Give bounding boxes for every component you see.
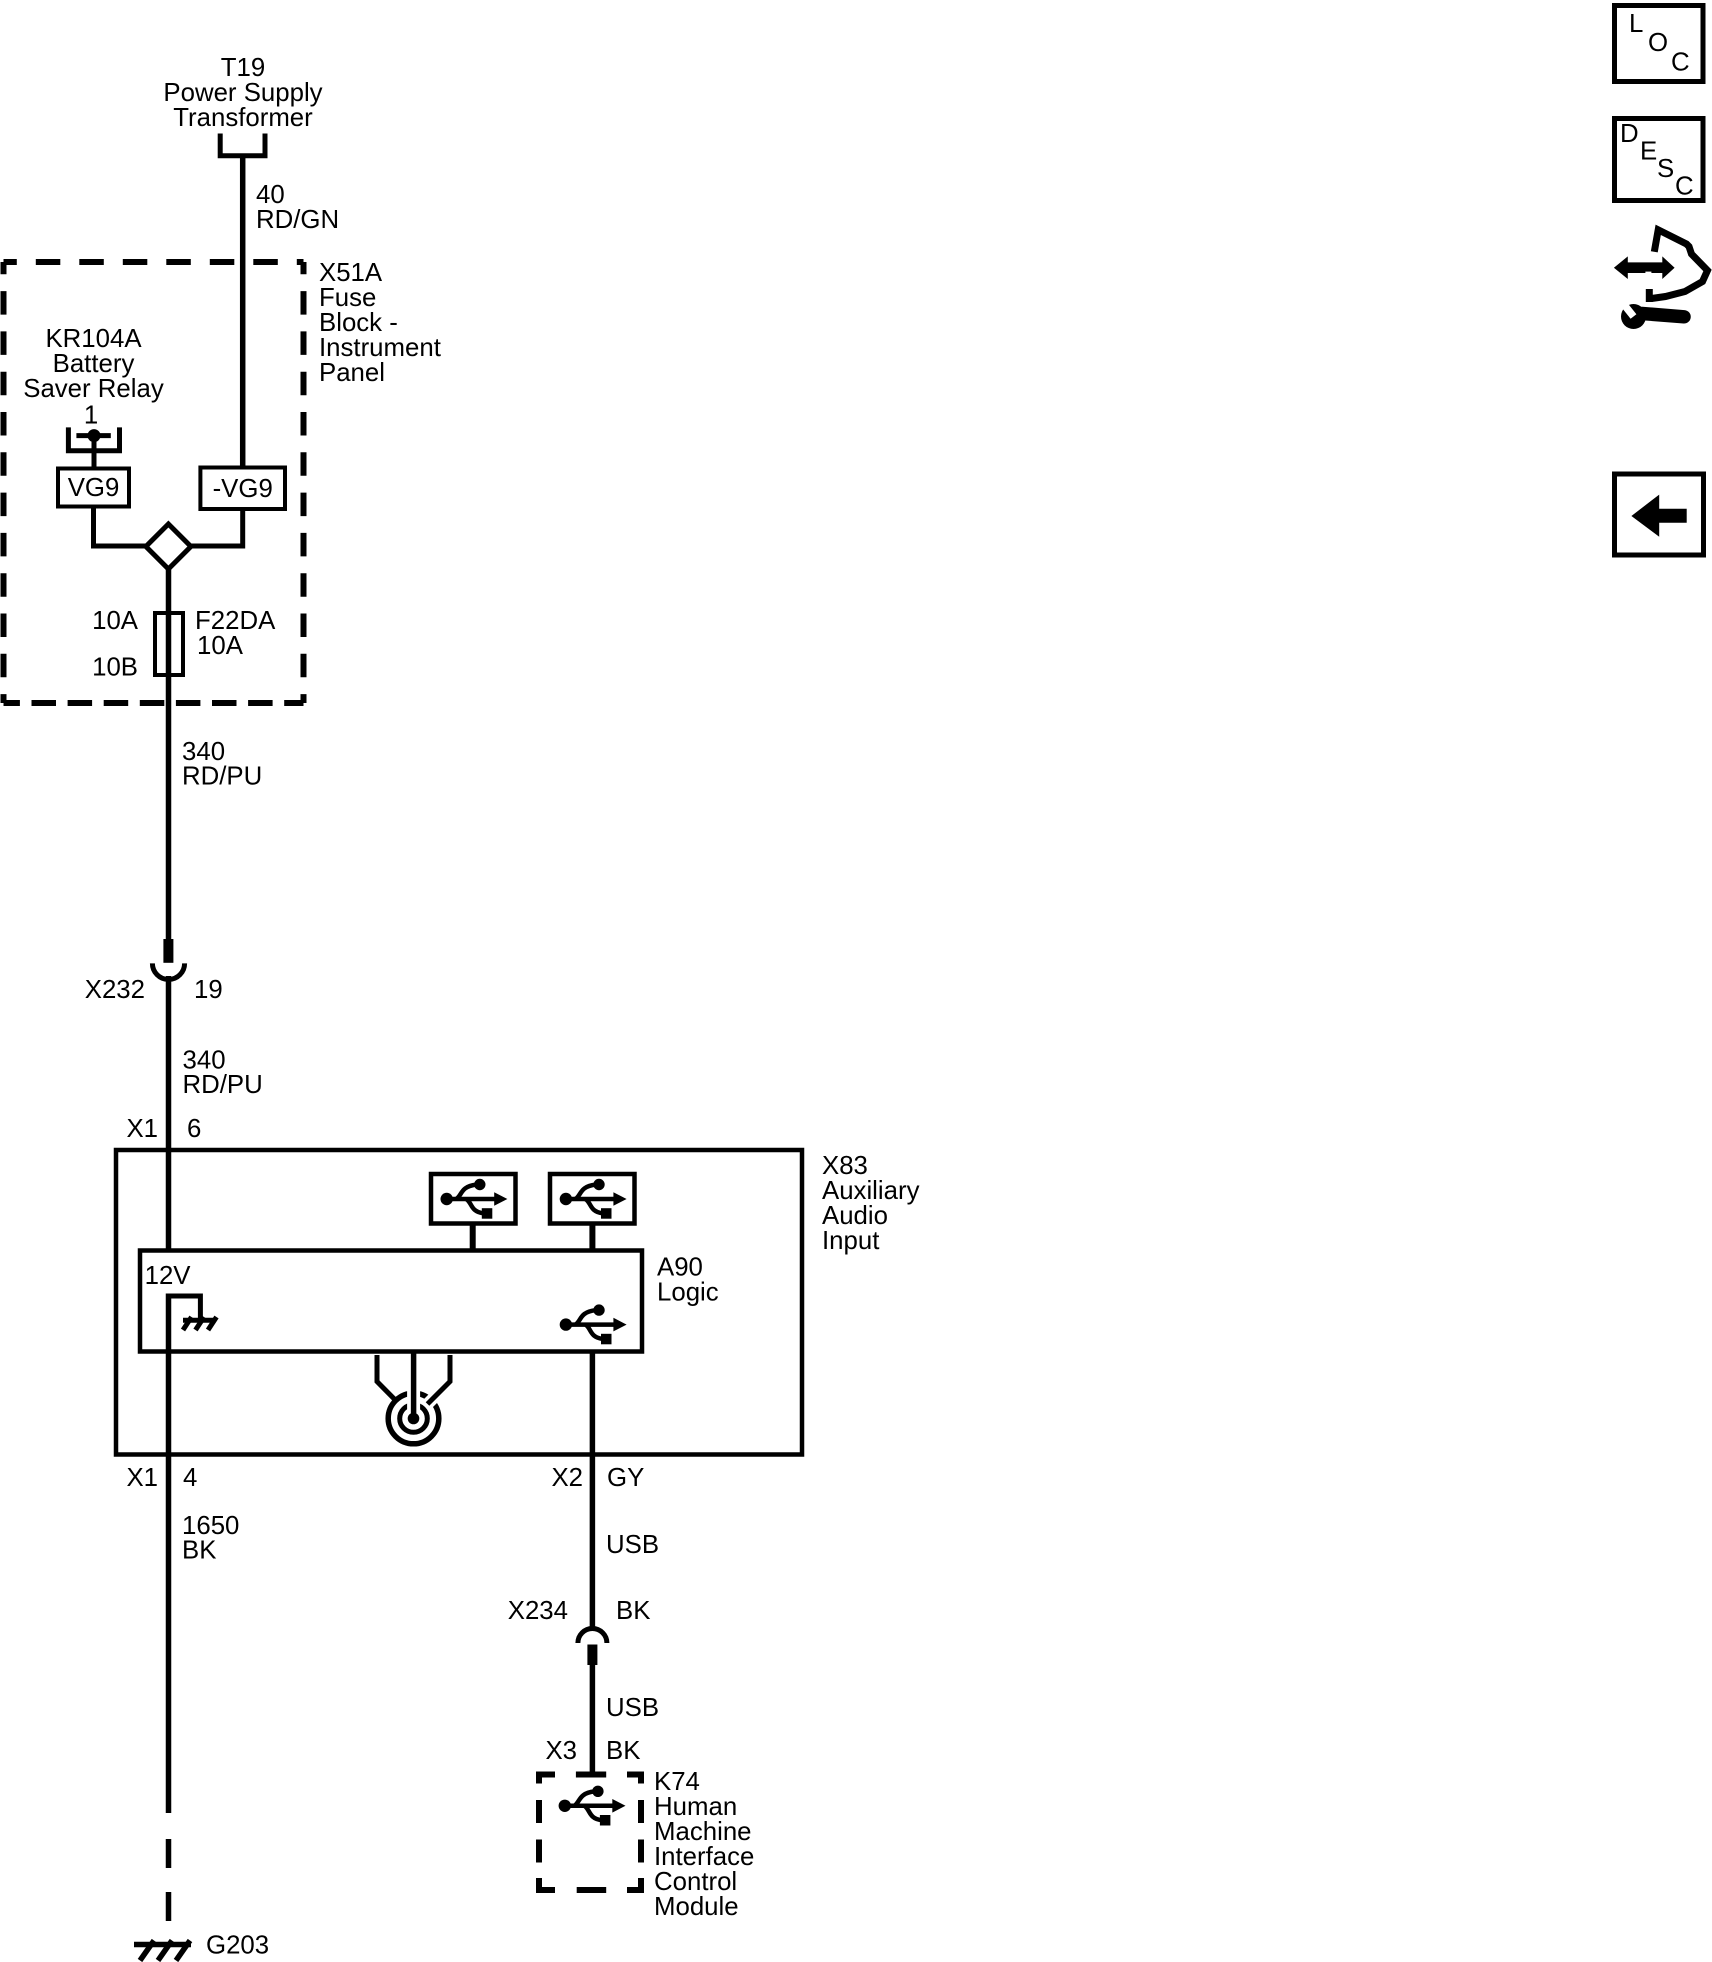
- fuse F22DA: [155, 613, 183, 675]
- module A90 logic box: [140, 1251, 642, 1352]
- svg-text:S: S: [1657, 155, 1674, 183]
- svg-text:4: 4: [183, 1464, 197, 1492]
- relay KR104A pin symbol: [68, 427, 119, 468]
- usb port box 2: [550, 1174, 635, 1224]
- ground G203: [134, 1941, 191, 1961]
- audio jack symbol: [377, 1354, 450, 1444]
- wire 40 RD/GN: [240, 156, 246, 468]
- svg-text:Instrument: Instrument: [319, 334, 441, 362]
- label X1 6: [126, 1115, 201, 1143]
- svg-text:X3: X3: [545, 1737, 577, 1765]
- wire splice through fuse to block edge: [166, 566, 172, 939]
- svg-text:Transformer: Transformer: [173, 104, 313, 132]
- svg-text:USB: USB: [606, 1694, 659, 1722]
- label KR104A Battery Saver Relay: [23, 325, 164, 403]
- svg-text:RD/PU: RD/PU: [183, 1071, 263, 1099]
- svg-text:RD/PU: RD/PU: [182, 763, 262, 791]
- label X232 19: [85, 976, 223, 1004]
- label X51A Fuse Block - Instrument Panel: [319, 259, 441, 387]
- svg-text:GY: GY: [607, 1464, 644, 1492]
- usb icon K74: [559, 1786, 626, 1826]
- wire 1650 BK: [166, 1294, 172, 1814]
- label 1650 BK: [182, 1512, 239, 1565]
- svg-text:Power Supply: Power Supply: [163, 79, 322, 107]
- svg-text:RD/GN: RD/GN: [256, 206, 339, 234]
- connector X232: [152, 939, 184, 980]
- wire usb port 1 stem: [470, 1225, 476, 1252]
- svg-text:1: 1: [84, 402, 98, 430]
- svg-text:Audio: Audio: [822, 1202, 888, 1230]
- svg-text:Module: Module: [654, 1893, 739, 1921]
- svg-text:VG9: VG9: [68, 474, 120, 502]
- svg-text:O: O: [1648, 29, 1668, 57]
- svg-text:L: L: [1629, 10, 1643, 38]
- label X1 4: [126, 1464, 197, 1492]
- svg-text:K74: K74: [654, 1768, 700, 1796]
- svg-text:12V: 12V: [145, 1262, 192, 1290]
- svg-text:40: 40: [256, 181, 285, 209]
- svg-text:X83: X83: [822, 1152, 868, 1180]
- label X3 BK: [545, 1737, 640, 1765]
- svg-text:USB: USB: [606, 1531, 659, 1559]
- svg-text:X234: X234: [508, 1597, 568, 1625]
- svg-text:-VG9: -VG9: [213, 475, 273, 503]
- svg-text:X2: X2: [551, 1464, 583, 1492]
- module K74 dashed box: [539, 1775, 641, 1891]
- usb port box 1: [431, 1174, 516, 1224]
- button back: [1615, 474, 1704, 555]
- svg-text:T19: T19: [221, 54, 265, 82]
- wire 340 RD/PU to X83: [166, 976, 172, 1252]
- wire USB BK: [590, 1665, 596, 1772]
- svg-text:A90: A90: [657, 1254, 703, 1282]
- button DESC: [1615, 119, 1704, 201]
- wire -VG9 to splice: [188, 509, 243, 546]
- wire usb port 2 stem: [589, 1225, 595, 1252]
- svg-text:Logic: Logic: [657, 1279, 719, 1307]
- svg-text:Control: Control: [654, 1868, 737, 1896]
- splice diamond: [146, 524, 191, 569]
- svg-text:BK: BK: [182, 1537, 216, 1565]
- icon diagnostic symptoms: [1614, 230, 1708, 329]
- label X2 GY: [551, 1464, 644, 1492]
- label X234 BK: [508, 1597, 651, 1625]
- label wire 340 RD/PU lower: [183, 1047, 263, 1100]
- chassis ground A90 internal: [183, 1317, 217, 1330]
- svg-text:C: C: [1675, 173, 1694, 201]
- label F22DA 10A: [195, 607, 276, 660]
- wire VG9 to splice: [94, 507, 151, 547]
- label X83 Auxiliary Audio Input: [822, 1152, 920, 1255]
- svg-text:Fuse: Fuse: [319, 284, 376, 312]
- svg-text:19: 19: [194, 976, 223, 1004]
- svg-text:10A: 10A: [197, 632, 244, 660]
- usb interface icon A90: [560, 1304, 627, 1344]
- label A90 Logic: [657, 1254, 719, 1307]
- label K74 Human Machine Interface Control Module: [654, 1768, 754, 1921]
- svg-text:BK: BK: [616, 1597, 650, 1625]
- svg-text:Saver Relay: Saver Relay: [23, 375, 164, 403]
- svg-text:X51A: X51A: [319, 259, 383, 287]
- svg-text:Battery: Battery: [53, 350, 135, 378]
- label wire 340 RD/PU upper: [182, 738, 262, 791]
- svg-text:Block -: Block -: [319, 309, 398, 337]
- button LOC: [1615, 6, 1704, 82]
- svg-text:X232: X232: [85, 976, 145, 1004]
- svg-text:KR104A: KR104A: [45, 325, 142, 353]
- svg-text:Auxiliary: Auxiliary: [822, 1177, 920, 1205]
- label T19 Power Supply Transformer: [163, 54, 322, 132]
- svg-text:Input: Input: [822, 1227, 879, 1255]
- wire 1650 BK dashed to ground: [166, 1839, 172, 1941]
- wire 12V to internal ground: [169, 1296, 201, 1320]
- connector T19 bracket: [220, 134, 265, 156]
- svg-text:F22DA: F22DA: [195, 607, 276, 635]
- svg-text:6: 6: [187, 1115, 201, 1143]
- svg-text:Human: Human: [654, 1793, 737, 1821]
- svg-text:G203: G203: [206, 1932, 269, 1960]
- svg-text:Interface: Interface: [654, 1843, 754, 1871]
- svg-text:Machine: Machine: [654, 1818, 752, 1846]
- svg-text:D: D: [1620, 120, 1639, 148]
- module X83 box: [116, 1150, 802, 1455]
- label wire 40 RD/GN: [256, 181, 339, 234]
- svg-text:X1: X1: [126, 1115, 158, 1143]
- svg-text:C: C: [1671, 49, 1690, 77]
- fuse block X51A dashed box: [4, 262, 304, 703]
- terminal VG9: [58, 469, 129, 507]
- svg-text:10A: 10A: [92, 607, 139, 635]
- svg-text:BK: BK: [606, 1737, 640, 1765]
- wire USB GY: [590, 1352, 596, 1629]
- svg-text:Panel: Panel: [319, 359, 385, 387]
- svg-text:E: E: [1640, 138, 1657, 166]
- terminal -VG9: [200, 468, 285, 510]
- svg-text:10B: 10B: [92, 654, 138, 682]
- svg-text:X1: X1: [126, 1464, 158, 1492]
- connector X234: [578, 1629, 607, 1666]
